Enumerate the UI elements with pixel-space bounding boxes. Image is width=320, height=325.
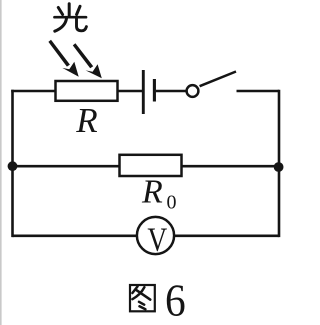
- svg-text:0: 0: [167, 192, 177, 214]
- switch S: lever arm (open): [200, 72, 236, 87]
- battery cell: short plate (negative): [153, 79, 156, 102]
- wire: left vertical rail: [11, 90, 14, 237]
- junction node: right (dot): [274, 162, 284, 172]
- svg-text:6: 6: [165, 276, 186, 325]
- wire: right vertical rail: [278, 90, 281, 237]
- switch S: pivot circle: [187, 85, 199, 97]
- wire: bottom rail (through voltmeter): [13, 235, 280, 238]
- junction node: left (dot): [8, 161, 18, 171]
- svg-text:R: R: [141, 173, 163, 210]
- light ray arrow 1: [48, 40, 78, 77]
- voltmeter V body: [137, 217, 174, 254]
- wire: battery to switch pivot: [156, 90, 187, 93]
- battery cell: long plate (positive): [142, 70, 145, 114]
- svg-text:R: R: [75, 101, 97, 140]
- photoresistor R body: [56, 81, 118, 101]
- label: 光 (light) hand-drawn glyph: [55, 4, 87, 31]
- wire: switch fixed contact to top-right corner: [237, 90, 280, 93]
- resistor R0 body: [120, 155, 182, 176]
- caption: 图 (figure) hand-drawn glyph: [130, 285, 155, 311]
- wire: middle rail (through R0): [13, 165, 280, 168]
- wire: top-left rail (left rail to photoresistor R): [11, 90, 56, 93]
- wire: photoresistor R to battery: [117, 90, 142, 93]
- light ray arrow 2: [73, 43, 102, 78]
- svg-text:V: V: [147, 221, 167, 258]
